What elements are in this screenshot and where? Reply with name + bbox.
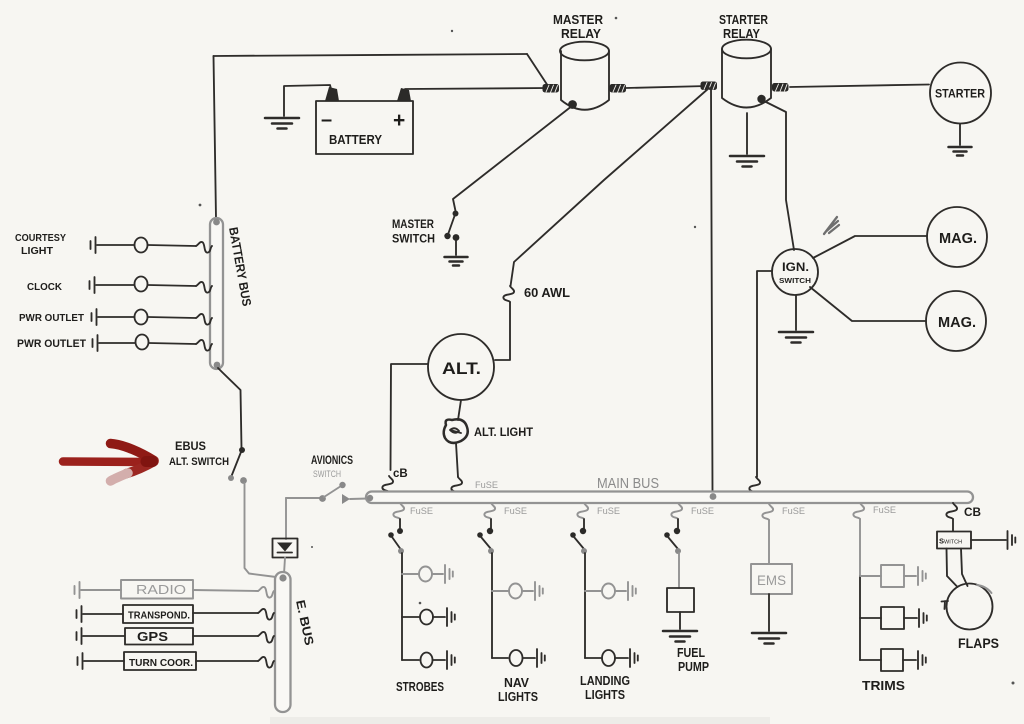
- svg-text:LANDING: LANDING: [580, 674, 630, 688]
- svg-text:MAIN BUS: MAIN BUS: [597, 476, 659, 492]
- load row: pwr outlet 2: [17, 335, 212, 352]
- wire: battery positive lead to master relay: [405, 88, 548, 89]
- red arrow pointing at ebus alt switch: [63, 444, 154, 482]
- svg-text:CLOCK: CLOCK: [27, 281, 62, 293]
- fuse: alt light feed: [451, 477, 462, 493]
- svg-text:SWITCH: SWITCH: [939, 537, 962, 546]
- wire: starter ground lead: [959, 124, 961, 145]
- wire: top horizontal wire: [214, 54, 528, 56]
- ground: master switch: [445, 257, 468, 266]
- wire: alternator B-lead left to cB: [391, 364, 429, 470]
- svg-text:STARTER: STARTER: [935, 89, 986, 101]
- ground: ignition switch: [779, 332, 813, 343]
- column: EMS: [751, 504, 805, 644]
- switch S2 (ignition switch): [772, 249, 818, 295]
- terminal braid: master relay right: [610, 84, 627, 93]
- svg-text:PWR OUTLET: PWR OUTLET: [19, 312, 85, 324]
- wire: ebus alt switch down to e-bus: [245, 483, 277, 577]
- node: battery bus top: [213, 219, 220, 226]
- column: strobes: [388, 503, 455, 694]
- alternator ALT: [428, 334, 494, 400]
- load row: clock: [27, 277, 212, 294]
- paper specks: [199, 17, 1015, 685]
- wire: ignition switch ground: [795, 295, 797, 330]
- wire: master relay to starter relay: [626, 86, 707, 88]
- node: e-bus top: [279, 574, 286, 581]
- lamp: ALT light: [444, 419, 533, 443]
- svg-text:STROBES: STROBES: [396, 680, 444, 694]
- relay K2 (starter relay): [719, 12, 771, 108]
- svg-text:BATTERY: BATTERY: [329, 133, 383, 147]
- load row: gps: [77, 628, 275, 645]
- load row: radio: [75, 580, 275, 599]
- wire: battery negative lead: [284, 85, 331, 116]
- breaker: alternator cB: [382, 476, 393, 492]
- bus: e-bus: [275, 572, 291, 712]
- svg-text:ALT.: ALT.: [442, 359, 481, 378]
- battery B1: [316, 87, 413, 154]
- svg-text:FuSE: FuSE: [873, 505, 896, 516]
- svg-text:MAG.: MAG.: [939, 231, 977, 247]
- svg-text:FuSE: FuSE: [597, 506, 620, 517]
- svg-text:SWITCH: SWITCH: [392, 232, 435, 246]
- wire: 60AWL vertical down to alternator: [495, 302, 510, 360]
- terminal braid: starter relay left: [701, 82, 718, 91]
- wire: alt light down to fuse: [456, 443, 458, 477]
- column: trims: [853, 503, 926, 693]
- wire: avionics feed down to diode: [285, 498, 287, 539]
- svg-text:FuSE: FuSE: [504, 506, 527, 517]
- svg-text:+: +: [393, 109, 405, 132]
- ground: starter motor: [949, 147, 972, 156]
- wire: alternator to alt light: [458, 400, 461, 420]
- svg-text:AVIONICS: AVIONICS: [311, 455, 353, 467]
- svg-text:–: –: [321, 109, 332, 131]
- switch S4 (avionics switch): [286, 455, 368, 504]
- column: landing lights: [570, 503, 638, 702]
- column: fuel pump: [663, 503, 714, 674]
- svg-text:FuSE: FuSE: [691, 506, 714, 517]
- wire: starter relay to starter motor: [790, 85, 929, 88]
- wire: 60AWL alternator feed diagonal: [511, 88, 710, 286]
- wire: starter relay ground lead: [746, 113, 748, 154]
- wire: diode to e-bus top: [284, 558, 285, 575]
- svg-text:MASTER: MASTER: [553, 12, 604, 27]
- wire: ignition switch feed from main bus: [757, 271, 772, 477]
- load row: transponder: [77, 605, 275, 623]
- svg-text:SWITCH: SWITCH: [313, 469, 341, 479]
- load row: pwr outlet 1: [19, 309, 212, 325]
- svg-text:E. BUS: E. BUS: [293, 599, 316, 647]
- svg-text:TRANSPOND.: TRANSPOND.: [128, 610, 190, 622]
- svg-text:RELAY: RELAY: [561, 26, 601, 41]
- terminal braid: starter relay right: [772, 83, 789, 92]
- svg-text:LIGHTS: LIGHTS: [585, 688, 625, 702]
- svg-text:MASTER: MASTER: [392, 217, 434, 231]
- svg-text:COURTESY: COURTESY: [15, 232, 66, 244]
- svg-text:IGN.: IGN.: [782, 260, 809, 274]
- wire: ignition to magneto 1: [813, 236, 927, 258]
- ground: starter relay: [730, 156, 764, 167]
- svg-text:TURN COOR.: TURN COOR.: [129, 657, 193, 669]
- motor M1 (starter): [930, 63, 991, 124]
- wire: starter relay battery side down to main bus: [711, 88, 713, 491]
- magneto MAG2: [926, 291, 986, 351]
- svg-text:GPS: GPS: [137, 629, 168, 644]
- load row: turn coordinator: [78, 652, 275, 670]
- bus: battery bus: [210, 218, 223, 369]
- svg-text:SWITCH: SWITCH: [779, 276, 811, 285]
- svg-text:LIGHT: LIGHT: [21, 245, 54, 257]
- svg-text:FLAPS: FLAPS: [958, 635, 999, 651]
- svg-text:60 AWL: 60 AWL: [524, 286, 570, 300]
- magneto MAG1: [927, 207, 987, 267]
- scribble mark near ignition: [824, 217, 839, 234]
- svg-text:MAG.: MAG.: [938, 315, 976, 331]
- wire: starter relay switched side to ignition switch: [764, 101, 794, 250]
- svg-text:EBUS: EBUS: [175, 439, 206, 453]
- fuse: ignition feed: [749, 477, 760, 493]
- node: main bus tap from starter relay: [710, 493, 717, 500]
- bus: main bus: [366, 492, 973, 504]
- wire: battery bus bottom to ebus alt switch: [218, 368, 242, 448]
- svg-text:STARTER: STARTER: [719, 12, 768, 27]
- svg-text:TRIMS: TRIMS: [862, 678, 905, 693]
- ground: battery negative ground: [265, 118, 299, 129]
- svg-text:EMS: EMS: [757, 573, 786, 588]
- column: flaps: [937, 503, 1015, 651]
- svg-text:BATTERY BUS: BATTERY BUS: [226, 226, 254, 307]
- scan shadow bottom: [270, 717, 770, 724]
- svg-text:FUEL: FUEL: [677, 646, 705, 660]
- svg-text:RELAY: RELAY: [723, 26, 760, 41]
- switch S3 (ebus alt switch): [228, 447, 247, 484]
- relay K1 (master relay): [553, 12, 609, 110]
- diode D1: [273, 539, 298, 558]
- svg-text:LIGHTS: LIGHTS: [498, 690, 538, 704]
- svg-text:PUMP: PUMP: [678, 660, 709, 674]
- svg-text:cB: cB: [393, 468, 408, 480]
- switch S1 (master switch): [392, 211, 459, 256]
- wire: master relay coil to master switch: [453, 108, 570, 212]
- svg-text:FuSE: FuSE: [475, 480, 498, 491]
- column: nav lights: [477, 503, 545, 704]
- svg-text:NAV: NAV: [504, 676, 530, 690]
- svg-text:PWR OUTLET: PWR OUTLET: [17, 338, 86, 350]
- node: main bus left end: [367, 495, 373, 501]
- svg-text:FuSE: FuSE: [410, 506, 433, 517]
- node: battery bus bottom: [214, 362, 221, 369]
- terminal braid: master relay left: [543, 84, 560, 93]
- wire: top-left vertical from top wire down to battery bus: [214, 56, 217, 218]
- svg-text:ALT. LIGHT: ALT. LIGHT: [474, 427, 533, 439]
- svg-text:FuSE: FuSE: [782, 506, 805, 517]
- fusible link: 60 AWL: [503, 286, 514, 302]
- svg-text:CB: CB: [964, 507, 981, 519]
- load row: courtesy light: [15, 232, 212, 257]
- svg-text:RADIO: RADIO: [136, 583, 186, 597]
- wire: slant from top wire down into master relay left terminal: [527, 54, 548, 86]
- svg-text:ALT. SWITCH: ALT. SWITCH: [169, 456, 229, 468]
- wire: ignition to magneto 2: [810, 287, 926, 321]
